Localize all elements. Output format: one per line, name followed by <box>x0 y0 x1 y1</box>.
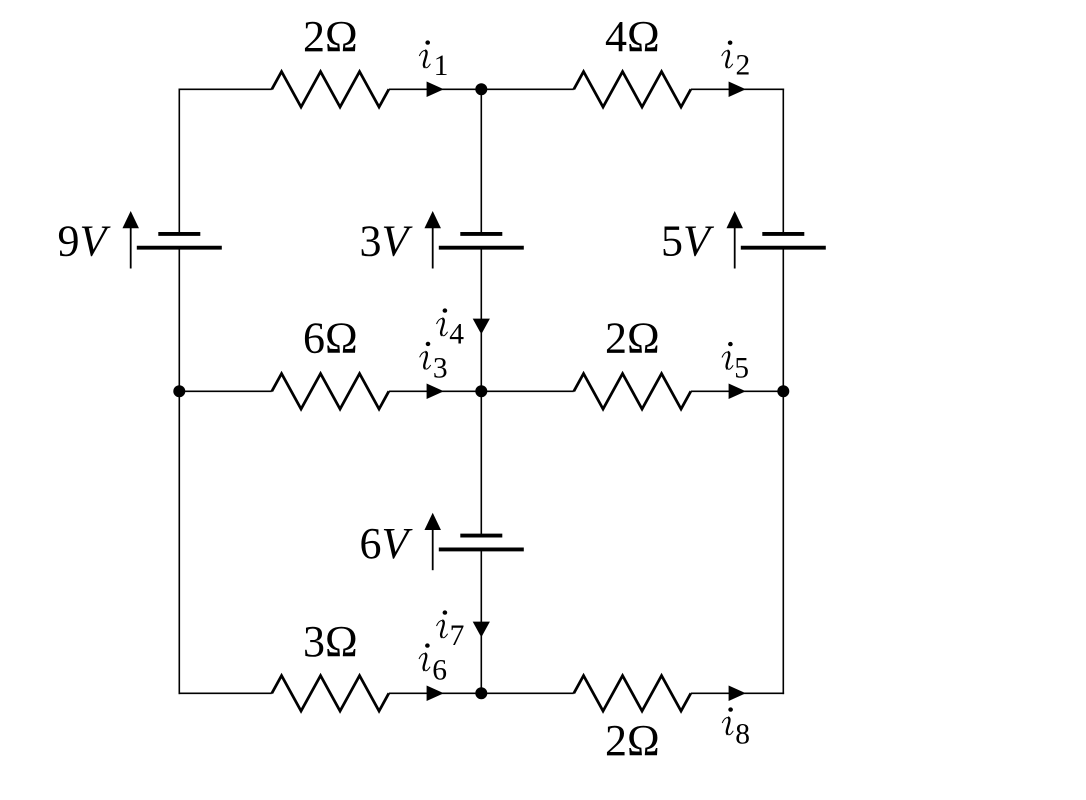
svg-text:4: 4 <box>449 319 464 351</box>
svg-text:2Ω: 2Ω <box>605 313 660 362</box>
svg-text:2Ω: 2Ω <box>303 12 358 61</box>
svg-text:6Ω: 6Ω <box>303 313 358 362</box>
svg-text:1: 1 <box>434 50 449 82</box>
svg-text:9V: 9V <box>58 217 112 266</box>
svg-text:4Ω: 4Ω <box>605 12 660 61</box>
svg-text:5: 5 <box>734 352 749 384</box>
svg-text:8: 8 <box>735 718 750 750</box>
svg-text:2Ω: 2Ω <box>605 716 660 765</box>
svg-text:6V: 6V <box>360 519 414 568</box>
svg-text:5V: 5V <box>661 217 715 266</box>
svg-text:7: 7 <box>450 620 465 652</box>
svg-text:6: 6 <box>432 655 447 687</box>
svg-text:3: 3 <box>433 353 448 385</box>
svg-text:3Ω: 3Ω <box>303 617 358 666</box>
svg-text:3V: 3V <box>360 217 414 266</box>
svg-text:2: 2 <box>736 50 751 82</box>
